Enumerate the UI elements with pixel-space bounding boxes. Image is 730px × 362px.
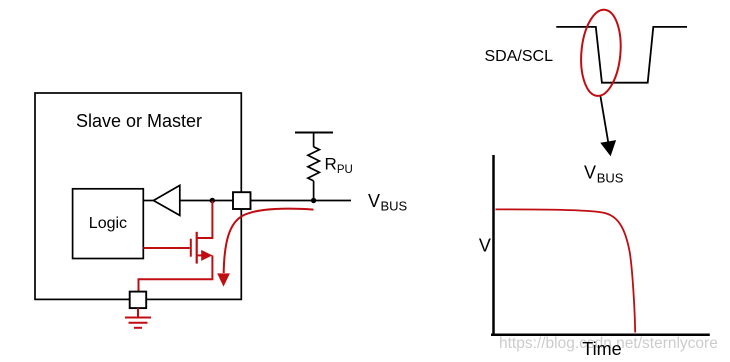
svg-text:V: V: [479, 236, 491, 256]
wire gate (red) from Logic: [143, 247, 190, 249]
wire logic to buffer: [143, 200, 153, 202]
transistor Q1 gate bar: [190, 239, 192, 257]
svg-text:Logic: Logic: [89, 215, 127, 232]
wire pad to VBUS: [251, 200, 352, 202]
current arrowhead (red): [217, 273, 230, 286]
svg-text:PU: PU: [337, 164, 353, 176]
svg-text:Slave or Master: Slave or Master: [76, 111, 202, 131]
waveform SDA/SCL: [556, 27, 687, 83]
node B (junction dot at resistor): [311, 198, 316, 203]
wire rail to resistor: [313, 133, 315, 147]
graph x-axis: [491, 333, 710, 336]
block Logic: [73, 189, 144, 259]
arrow ellipse to VBUS: [601, 97, 609, 143]
wire pad to ground: [137, 308, 139, 317]
svg-text:SDA/SCL: SDA/SCL: [485, 48, 554, 65]
resistor RPU zigzag: [308, 147, 320, 181]
svg-text:BUS: BUS: [597, 170, 624, 185]
transistor Q1 source arrow: [197, 254, 203, 256]
power rail bar: [295, 132, 333, 134]
graph y-axis: [492, 155, 495, 336]
transistor Q1 channel bar: [196, 232, 198, 264]
wire buffer to pad: [180, 200, 234, 202]
highlight ellipse (red): [578, 8, 624, 97]
node A (junction dot): [210, 198, 215, 203]
wire resistor to node: [313, 181, 315, 201]
pad P1 (bus pin): [233, 192, 251, 209]
wire source (red) to ground pad: [139, 255, 213, 292]
svg-text:R: R: [325, 155, 337, 174]
wire drain (red) node to MOSFET: [197, 201, 213, 238]
pad P2 (ground pin): [130, 292, 147, 309]
svg-text:BUS: BUS: [381, 198, 408, 213]
block U1 Slave or Master outline: [35, 93, 241, 299]
ground symbol: [125, 317, 151, 319]
current path curve (red): [224, 209, 314, 273]
svg-text:V: V: [584, 163, 596, 183]
buffer U2 (triangle): [154, 185, 180, 215]
svg-text:Time: Time: [582, 339, 621, 359]
decay curve (red): [496, 209, 636, 332]
svg-text:V: V: [368, 191, 380, 211]
